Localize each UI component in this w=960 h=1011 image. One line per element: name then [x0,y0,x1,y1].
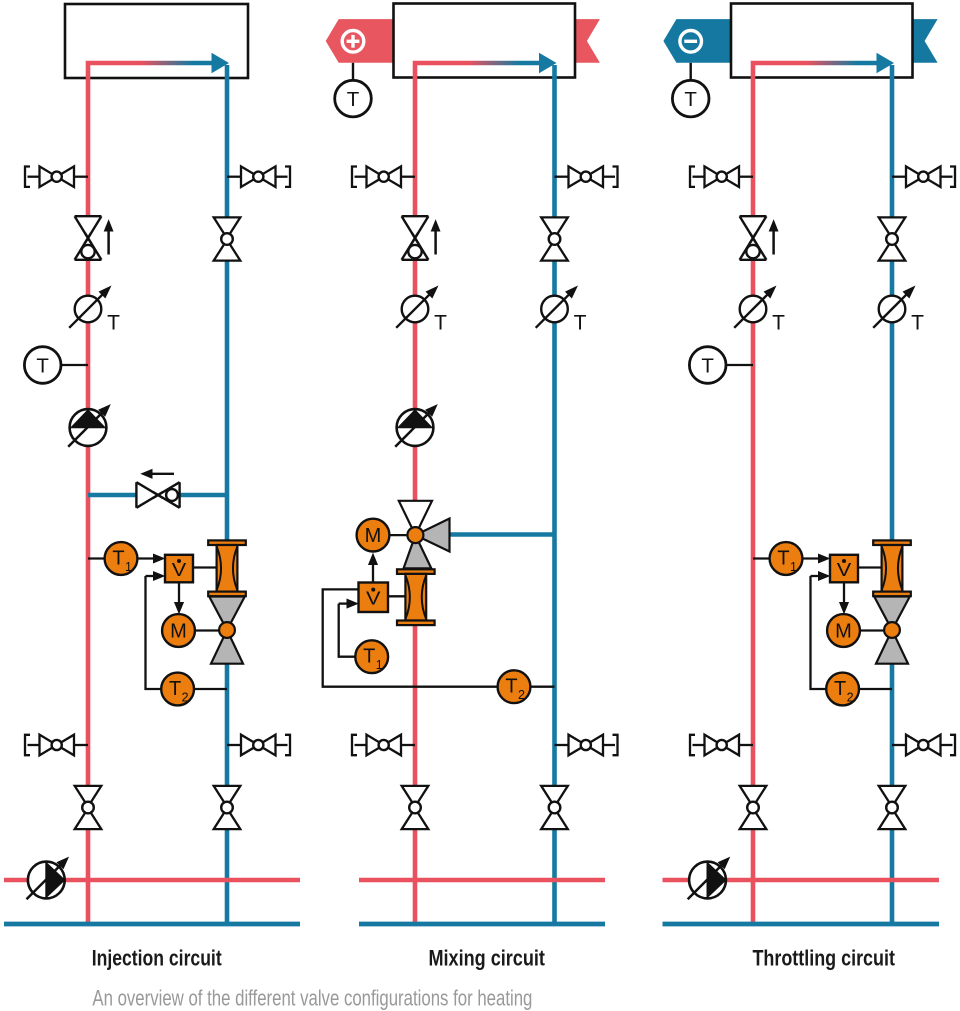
svg-text:1: 1 [125,560,132,574]
svg-text:M: M [835,621,852,643]
svg-text:An overview of the different v: An overview of the different valve confi… [92,986,532,1011]
svg-text:T: T [107,312,120,335]
svg-text:T: T [363,646,375,668]
svg-text:T: T [36,354,49,377]
svg-text:Mixing circuit: Mixing circuit [428,945,545,970]
svg-text:T: T [112,548,124,570]
svg-text:T: T [834,678,846,700]
svg-text:T: T [169,678,181,700]
svg-text:T: T [505,676,517,698]
svg-text:T: T [347,88,360,111]
svg-text:T: T [574,312,587,335]
svg-text:T: T [434,312,447,335]
svg-text:T: T [684,88,697,111]
svg-text:T: T [911,312,924,335]
svg-text:Injection circuit: Injection circuit [92,945,223,970]
svg-text:2: 2 [847,691,854,705]
svg-text:Throttling circuit: Throttling circuit [752,945,895,970]
svg-text:2: 2 [518,688,525,702]
svg-text:T: T [772,312,785,335]
svg-text:M: M [365,525,382,547]
svg-text:1: 1 [376,658,383,672]
svg-text:1: 1 [790,560,797,574]
svg-text:T: T [701,354,714,377]
svg-text:T: T [777,548,789,570]
svg-text:2: 2 [182,691,189,705]
svg-text:M: M [170,621,187,643]
